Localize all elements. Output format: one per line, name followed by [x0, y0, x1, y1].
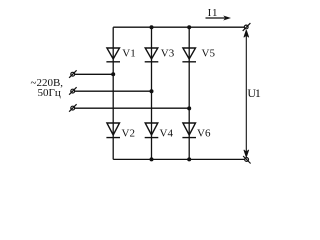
svg-text:I1: I1 [208, 7, 219, 19]
terminal input phase A [69, 70, 77, 78]
node junction phase A branch1 [111, 72, 115, 76]
svg-text:50Гц: 50Гц [38, 87, 61, 99]
terminal output plus (top right) [243, 23, 251, 31]
voltage dimension arrow U1 [244, 30, 261, 157]
wire phase A [75, 73, 114, 75]
wire branch 3 vertical [188, 27, 190, 159]
svg-text:U1: U1 [247, 86, 260, 100]
node junction top bus branch3 [187, 25, 191, 29]
wire branch 1 vertical [112, 27, 114, 159]
svg-text:V1: V1 [122, 47, 135, 59]
diode V5 [182, 47, 215, 61]
diode V1 [106, 47, 135, 61]
node junction phase C branch3 [187, 106, 191, 110]
wire top bus [113, 26, 244, 28]
terminal output minus (bottom right) [243, 156, 251, 164]
node junction top bus branch2 [150, 25, 154, 29]
wire phase C [75, 107, 190, 109]
terminal input phase B [69, 87, 77, 95]
svg-text:V3: V3 [161, 47, 175, 59]
svg-text:V5: V5 [202, 47, 216, 59]
node junction bottom bus branch3 [187, 157, 191, 161]
node junction bottom bus branch2 [150, 157, 154, 161]
diode V3 [145, 47, 175, 61]
diode V2 [106, 123, 135, 139]
terminal input phase C [69, 104, 77, 112]
wire phase B [75, 90, 152, 92]
svg-text:V2: V2 [122, 127, 135, 139]
current arrow I1 [206, 7, 232, 21]
node junction phase B branch2 [150, 89, 154, 93]
wire bottom bus [113, 158, 245, 160]
diode V6 [182, 123, 211, 139]
label source value ~220V 50Hz [31, 77, 64, 99]
wire branch 2 vertical [151, 27, 153, 159]
svg-text:V6: V6 [197, 127, 211, 139]
svg-text:V4: V4 [160, 127, 174, 139]
diode V4 [145, 123, 174, 139]
